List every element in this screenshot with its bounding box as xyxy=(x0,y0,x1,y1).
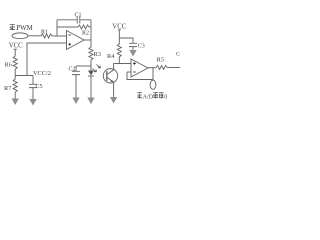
ground C3 xyxy=(129,50,136,57)
wire node to C2 xyxy=(76,65,91,67)
ground LED xyxy=(87,98,94,105)
wire R1 to U1 inverting input xyxy=(52,35,66,37)
resistor R7 xyxy=(13,76,17,99)
phototransistor Q1 xyxy=(103,69,117,83)
wire VCC/2 riser to U1 plus input xyxy=(27,43,67,76)
wire collector node to U2 plus input xyxy=(113,63,131,65)
wire R2 branch xyxy=(57,26,78,28)
op-amp U1 xyxy=(67,31,85,50)
svg-text:A/D: A/D xyxy=(143,94,154,100)
connector oval PWM input xyxy=(12,33,28,39)
wire emitter down xyxy=(113,82,115,97)
svg-text:VCC: VCC xyxy=(9,43,23,50)
svg-text:VCC/2: VCC/2 xyxy=(33,70,51,77)
resistor R4 xyxy=(117,38,121,64)
resistor R1 xyxy=(41,34,52,38)
ground R7 xyxy=(12,99,19,106)
wire U2 output xyxy=(148,67,156,69)
svg-text:C5: C5 xyxy=(36,84,43,90)
svg-text:C3: C3 xyxy=(138,44,145,50)
connector oval output A/D xyxy=(152,79,154,82)
wire VCC down xyxy=(118,30,121,38)
svg-text:C1: C1 xyxy=(75,12,82,18)
wire U1 output xyxy=(84,39,91,41)
svg-text:R6: R6 xyxy=(5,62,12,69)
ground C2 xyxy=(72,98,79,105)
node VCC/2 wire xyxy=(15,75,33,77)
capacitor C2 xyxy=(72,66,80,98)
svg-text:0: 0 xyxy=(164,94,167,100)
svg-text:R5: R5 xyxy=(157,56,165,63)
resistor R5 xyxy=(156,66,167,70)
wire R6 to node VCC/2 xyxy=(14,69,16,75)
resistor R6 xyxy=(13,56,17,69)
wire U2 minus input xyxy=(127,71,131,73)
capacitor C5 xyxy=(29,76,37,100)
label 接PWM xyxy=(10,25,33,33)
svg-text:PWM: PWM xyxy=(16,25,32,32)
wire feedback right rail xyxy=(90,20,92,40)
svg-text:R7: R7 xyxy=(4,85,11,92)
optocoupler LED xyxy=(90,66,92,71)
light arrows to phototransistor xyxy=(93,65,101,72)
capacitor C1 xyxy=(77,16,80,23)
resistor R3 xyxy=(89,40,93,66)
wire oval to R1 xyxy=(28,35,41,37)
svg-text:R4: R4 xyxy=(107,53,115,60)
svg-text:C2: C2 xyxy=(69,67,76,73)
ground emitter xyxy=(110,97,117,104)
label 接A/D通道0 xyxy=(137,93,142,99)
wire feedback loop U2 xyxy=(127,68,153,80)
wire collector riser xyxy=(113,64,115,70)
capacitor C3 xyxy=(129,43,137,50)
wire VCC to R6 xyxy=(14,49,18,56)
svg-text:R1: R1 xyxy=(41,30,48,36)
wire C1 branch top xyxy=(57,19,91,21)
wire VCC node to C3 xyxy=(119,38,133,43)
op-amp U2 xyxy=(131,59,148,77)
wire R5 to edge xyxy=(167,67,180,69)
svg-text:C4: C4 xyxy=(176,52,180,58)
resistor R2 xyxy=(78,25,89,29)
svg-text:R3: R3 xyxy=(94,51,101,58)
ground C5 xyxy=(29,99,36,106)
svg-text:R2: R2 xyxy=(82,31,89,37)
wire feedback left rail xyxy=(56,20,58,36)
